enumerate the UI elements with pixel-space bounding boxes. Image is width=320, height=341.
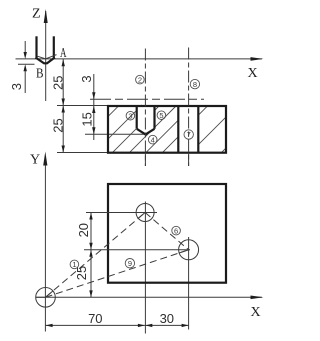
Y axis <box>30 152 47 332</box>
svg-text:20: 20 <box>76 223 91 237</box>
svg-text:3: 3 <box>128 111 132 120</box>
hole wall left <box>177 106 179 153</box>
svg-text:7: 7 <box>187 130 191 139</box>
svg-text:15: 15 <box>80 112 95 126</box>
svg-text:70: 70 <box>88 311 102 326</box>
point label 9 <box>125 259 134 268</box>
point label 6 <box>172 226 181 235</box>
svg-text:3: 3 <box>9 83 24 90</box>
dashed path origin-hole1 <box>46 213 146 298</box>
svg-text:Z: Z <box>32 7 41 22</box>
origin circle <box>36 288 56 308</box>
point label 5 <box>157 111 166 120</box>
hatching left/middle material <box>71 105 210 154</box>
point label 7 <box>184 130 193 139</box>
svg-text:6: 6 <box>174 226 178 235</box>
dimension 20 (hole1 to hole2 Y) <box>76 213 93 250</box>
svg-text:5: 5 <box>159 111 163 120</box>
R-plane dash line <box>90 98 204 100</box>
section view outline <box>108 106 226 153</box>
point label 4 <box>148 135 157 144</box>
point label 8 <box>190 79 199 88</box>
svg-text:4: 4 <box>151 135 155 144</box>
hole 2 <box>84 240 199 260</box>
svg-text:30: 30 <box>160 311 174 326</box>
projection stub hole 2 <box>188 153 190 166</box>
svg-text:X: X <box>251 305 261 320</box>
point label 3 <box>126 111 135 120</box>
point label 2 <box>136 75 145 84</box>
dimension 25 (A plane to part top) <box>51 59 66 105</box>
dimension 30 <box>145 311 188 327</box>
svg-text:25: 25 <box>51 76 66 90</box>
svg-text:8: 8 <box>193 80 197 89</box>
projection stub hole 1 <box>144 153 146 166</box>
svg-text:X: X <box>248 66 258 81</box>
svg-text:B: B <box>36 67 44 82</box>
top view outline <box>108 184 226 283</box>
hole 1 <box>86 204 157 222</box>
slot profile <box>137 106 155 134</box>
X axis (upper view) <box>16 57 264 81</box>
dashed path hole1-hole2 <box>145 213 189 250</box>
svg-text:25: 25 <box>51 118 66 132</box>
svg-text:9: 9 <box>128 259 132 268</box>
dimension 3 (R plane to surface) <box>79 74 95 99</box>
dimension 3 (tool tip to A plane, left) <box>9 41 34 93</box>
projection line hole 1 (lower) <box>144 202 146 334</box>
hole wall right <box>197 106 199 153</box>
svg-text:1: 1 <box>72 260 76 269</box>
svg-text:A: A <box>60 46 67 61</box>
dimension 25 (part thickness) <box>51 106 108 153</box>
dimension 15 (slot depth) <box>80 99 146 140</box>
point label 1 <box>70 260 79 269</box>
Z axis <box>32 7 48 102</box>
projection line hole 1 (upper) <box>144 49 146 167</box>
dimension 70 <box>46 311 145 327</box>
svg-text:2: 2 <box>138 75 142 84</box>
hatching right material <box>160 105 269 154</box>
X axis (lower view) <box>36 296 264 321</box>
dimension 25 (hole2 Y) <box>74 250 93 298</box>
dashed path origin-hole2 <box>46 250 189 297</box>
svg-text:Y: Y <box>30 153 40 168</box>
svg-text:3: 3 <box>79 75 94 82</box>
milling tool <box>36 36 57 63</box>
projection line hole 2 (upper) <box>188 48 190 167</box>
projection line hole 2 (lower) <box>188 237 190 330</box>
